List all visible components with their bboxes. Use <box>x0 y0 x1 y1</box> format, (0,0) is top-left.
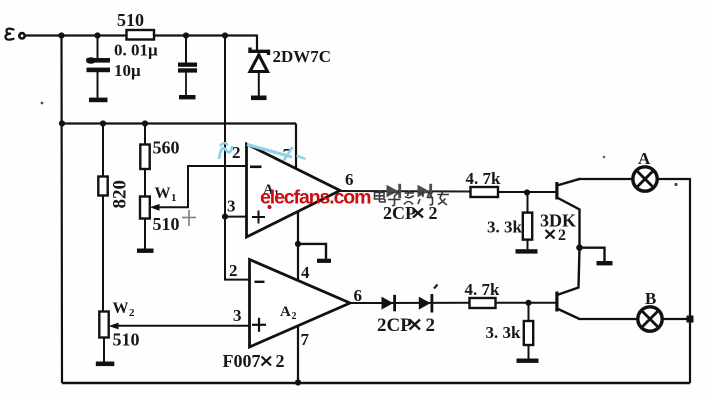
junction top rail / C2 <box>183 32 189 38</box>
svg-text:560: 560 <box>153 138 180 158</box>
svg-text:3: 3 <box>227 197 236 216</box>
ground of 3.3k top <box>516 249 538 253</box>
svg-text:2: 2 <box>429 203 438 223</box>
wire left bus <box>60 36 63 384</box>
label F007 x2 <box>223 351 285 371</box>
resistor 510 (top) <box>117 10 154 40</box>
svg-text:4. 7k: 4. 7k <box>465 280 501 299</box>
ground of W2 <box>96 362 115 367</box>
svg-text:510: 510 <box>153 214 180 234</box>
ground of C2 <box>179 95 196 99</box>
resistor 4.7k (top) <box>466 169 502 197</box>
label 2CP x2 (top) <box>383 203 438 223</box>
wire 4.7k to Q2 base <box>496 302 556 304</box>
junction top rail / node line <box>222 32 228 38</box>
ground of 3.3k bottom <box>517 359 539 363</box>
wire pin7 supply drop A1 <box>295 124 297 170</box>
svg-text:2: 2 <box>232 143 241 162</box>
svg-text:1: 1 <box>171 192 177 204</box>
potentiometer W1 510 <box>140 185 180 249</box>
wire bottom bus <box>62 382 690 384</box>
svg-text:4. 7k: 4. 7k <box>466 169 502 188</box>
junction base node Q2 <box>525 300 531 306</box>
junction node line / A1 pin3 <box>222 214 228 220</box>
diode D1 2CP <box>387 184 402 198</box>
svg-text:A: A <box>638 149 651 168</box>
svg-text:2: 2 <box>426 315 436 336</box>
watermark chinese text (grey) <box>375 191 450 206</box>
svg-text:2: 2 <box>276 351 285 371</box>
junction Q1 emitter / Q2 collector <box>576 244 583 251</box>
svg-text:2CP: 2CP <box>383 203 416 223</box>
annotation blue scribbles <box>219 143 306 161</box>
svg-text:2: 2 <box>558 227 566 244</box>
resistor 4.7k (bottom) <box>465 280 501 308</box>
svg-text:3. 3k: 3. 3k <box>486 323 522 342</box>
wire Q1 collector to lamp A <box>579 178 633 180</box>
op-amp A1 <box>247 144 341 237</box>
speck <box>41 102 44 105</box>
lamp A <box>633 149 657 191</box>
wire W2 wiper to A2 pin3 <box>116 325 250 327</box>
junction base node Q1 <box>524 189 530 195</box>
wire lamp A to right bus <box>657 179 690 383</box>
svg-text:7: 7 <box>301 330 310 349</box>
svg-text:2: 2 <box>292 311 297 322</box>
svg-text:510: 510 <box>117 10 144 30</box>
junction pin4 / ground <box>295 241 301 247</box>
op-amp A2 <box>250 260 351 348</box>
junction lamp B / right bus <box>687 316 694 323</box>
resistor 3.3k (bottom) <box>486 303 534 359</box>
svg-text:3. 3k: 3. 3k <box>487 218 523 237</box>
watermark elecfans.com (red) <box>260 187 371 210</box>
label 2CP x2 (bottom) <box>377 315 435 336</box>
capacitor C1 10u electrolytic <box>86 36 110 98</box>
junction top rail / left bus <box>58 32 64 38</box>
zener diode 2DW7C <box>250 35 331 96</box>
svg-text:W: W <box>155 185 171 202</box>
resistor 820 <box>98 124 130 312</box>
wire reference node line (to A1 pin3 and A2 pin2) <box>225 36 250 280</box>
diode D3 2CP <box>382 295 397 312</box>
diode D2 2CP <box>418 184 433 198</box>
junction second bus / R820 <box>100 120 106 126</box>
svg-text:elecfans.com: elecfans.com <box>260 187 371 209</box>
watermark grey cross <box>182 210 196 226</box>
svg-text:B: B <box>645 289 656 308</box>
speck <box>674 183 677 186</box>
svg-text:10μ: 10μ <box>114 61 141 80</box>
wire top rail <box>26 34 258 36</box>
svg-text:2: 2 <box>229 261 238 280</box>
svg-text:0. 01μ: 0. 01μ <box>114 41 158 60</box>
svg-text:3: 3 <box>233 306 242 325</box>
wire second bus (V+ rail) <box>62 122 297 124</box>
wire Q2 emitter to lamp B <box>579 318 639 320</box>
svg-text:F007: F007 <box>223 351 261 371</box>
svg-text:2: 2 <box>129 307 135 319</box>
ground G2 <box>298 244 331 263</box>
resistor 3.3k (top) <box>487 193 532 250</box>
wire W1 wiper to A1 pin2 <box>157 166 247 207</box>
resistor 560 <box>140 124 179 197</box>
wire A2 pin7 to bottom bus <box>297 326 299 383</box>
wire A1 output channel <box>340 190 471 193</box>
wire lamp B to right bus <box>662 318 690 320</box>
capacitor C2 0.01u <box>178 36 197 96</box>
transistor Q1 3DK <box>555 179 580 248</box>
ground of zener <box>251 96 267 101</box>
lamp B <box>638 289 662 331</box>
svg-text:W: W <box>113 300 129 317</box>
ground of C1 <box>89 98 108 103</box>
svg-text:820: 820 <box>110 180 131 209</box>
svg-text:4: 4 <box>301 263 310 282</box>
svg-text:2DW7C: 2DW7C <box>273 47 332 66</box>
ground G3 <box>580 248 613 266</box>
ground of W1 <box>137 249 154 253</box>
junction top rail / C1 <box>94 32 100 38</box>
potentiometer W2 510 <box>99 300 139 362</box>
wire 4.7k to Q1 base <box>498 191 556 193</box>
junction pin7 / bottom bus <box>295 379 301 385</box>
wire A2 output channel <box>350 302 470 304</box>
wire A1 pin4 to ground node <box>297 211 299 281</box>
node E input terminal <box>5 29 24 40</box>
svg-text:510: 510 <box>113 330 140 350</box>
svg-text:A: A <box>280 304 291 320</box>
speck <box>603 156 606 159</box>
wire A1 pin3 <box>225 216 247 218</box>
junction second bus / R560 <box>142 120 148 126</box>
junction second bus / left bus <box>59 120 65 126</box>
transistor Q2 3DK <box>555 248 579 319</box>
svg-text:2CP: 2CP <box>377 315 412 336</box>
diode D4 2CP <box>419 294 434 313</box>
tick mark above D4 <box>434 285 438 289</box>
